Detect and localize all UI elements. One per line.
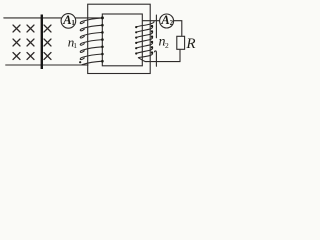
resistor R box [177,36,185,49]
conducting rod (slider) on rails [41,15,43,70]
svg-text:A: A [62,13,71,27]
n2 turn 2 [136,26,153,32]
svg-text:1: 1 [73,41,77,50]
x mark r1c3 [44,25,51,32]
n2 turn 6 [136,47,153,53]
n1 turn 4 [80,40,102,46]
junction: top rail to n1 [101,16,104,19]
svg-text:A: A [160,13,169,27]
field region: 3x3 grid of x marks [13,25,51,60]
n1 turn 6 [80,54,102,60]
transformer core outer rectangle [88,4,151,73]
wire: A2 to R top [174,21,182,37]
x mark r1c1 [13,25,20,32]
n1 turn junctions [101,24,104,27]
n2 turn junctions (right ends) [151,25,153,27]
wire: bottom rail (left circuit) [6,64,88,66]
n1 turn 7 (joins bottom rail) [82,61,103,65]
n2 turn 3 [136,31,153,37]
n2 turn junctions (left ends) [135,26,137,28]
svg-text:2: 2 [170,19,174,27]
n2 turn 4 [136,37,153,43]
winding n2 (secondary, on right limb) [136,21,154,62]
ammeter A2 circle [160,14,174,28]
n1 turn 2 [80,25,102,31]
wire: R bottom down and left along bottom [145,49,180,61]
wire: top rail (left circuit) to primary junction [4,17,103,19]
n2 turn 7 (joins bottom lead) [138,53,153,62]
x mark r3c3 [44,53,51,60]
n1 turn 5 [80,47,102,53]
svg-text:1: 1 [71,19,75,27]
svg-text:R: R [185,36,195,52]
transformer core inner rectangle (window) [102,14,142,66]
n1 turn 3 [80,32,102,38]
x mark r2c3 [44,39,51,46]
junction dots on n2 winding [135,25,153,55]
junction dots on n1 winding [79,16,104,63]
winding n1 (primary, on left limb) [80,18,102,65]
wire: secondary bottom return, upper segment (crosses A2 lead) [155,15,157,38]
x mark r3c2 [27,53,34,60]
wire: secondary bottom return, lower segment with curl [155,51,157,66]
wire: secondary top lead to A2 [143,20,160,22]
background [0,0,204,85]
x mark r1c2 [27,25,34,32]
ammeter A1 circle [61,14,76,29]
n2 turn 1 (from top lead) [136,21,154,27]
svg-text:2: 2 [165,41,169,50]
n1 turn 1 [80,18,102,24]
x mark r2c1 [13,39,20,46]
x mark r2c2 [27,39,34,46]
x mark r3c1 [13,53,20,60]
n2 turn 5 [136,42,153,48]
